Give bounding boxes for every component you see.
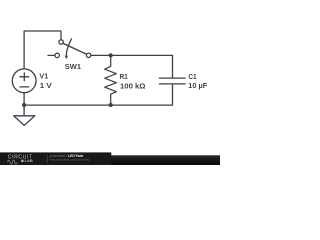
junction node at V1 bottom xyxy=(22,103,26,107)
svg-text:10 µF: 10 µF xyxy=(188,83,208,90)
voltage source V1 xyxy=(12,69,36,93)
resistor R1 xyxy=(105,55,117,105)
switch SW1 arrow head xyxy=(65,56,68,60)
svg-text:1 V: 1 V xyxy=(40,83,52,90)
wire bottom rail from ground to C1 xyxy=(24,85,172,106)
junction node at R1 bottom xyxy=(109,103,113,107)
svg-text:100 kΩ: 100 kΩ xyxy=(120,84,146,91)
junction node at R1 top xyxy=(109,53,113,57)
svg-text:V1: V1 xyxy=(39,73,48,80)
ground xyxy=(14,105,35,125)
watermark bar background xyxy=(0,155,220,165)
watermark logo box xyxy=(0,152,111,165)
logo LAB square xyxy=(21,160,23,162)
logo waveform squiggle xyxy=(8,160,18,164)
capacitor C1 xyxy=(159,78,185,84)
wire top rail from SW1 to C1 xyxy=(89,55,173,77)
wire left loop from switch top terminal to V1 to ground rail xyxy=(24,31,61,105)
svg-text:R1: R1 xyxy=(120,74,128,81)
svg-text:LAB: LAB xyxy=(25,158,33,163)
divider line xyxy=(46,155,48,163)
switch SW1 xyxy=(48,39,91,58)
svg-text:http://circuitlab.com/cswv4pq: http://circuitlab.com/cswv4pq xyxy=(50,157,90,161)
svg-text:C1: C1 xyxy=(188,74,196,81)
svg-text:SW1: SW1 xyxy=(65,64,81,71)
